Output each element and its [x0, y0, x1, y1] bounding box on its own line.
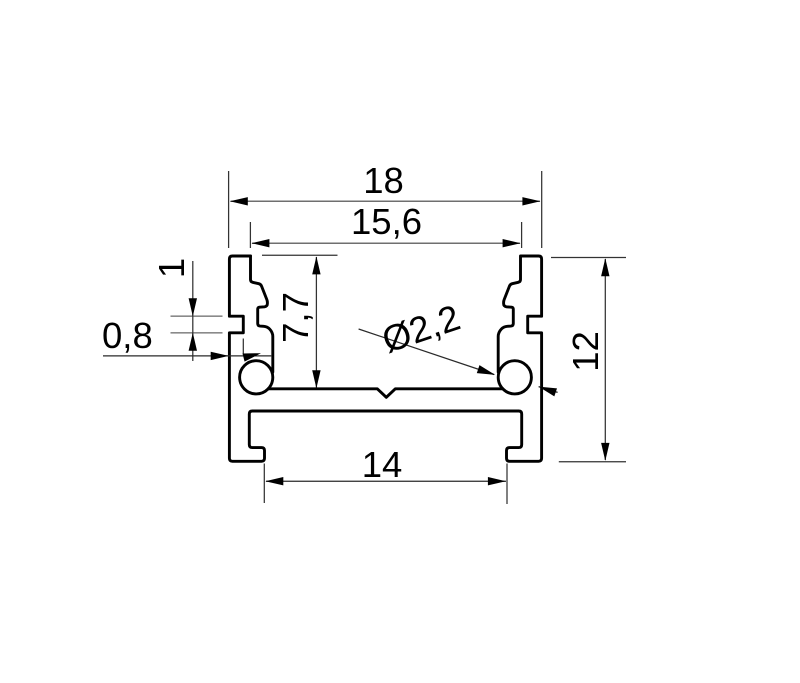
- dim 18 dimension line: [231, 200, 541, 202]
- svg-text:0,8: 0,8: [102, 315, 153, 356]
- dim 1 arrow down: [189, 298, 197, 316]
- dim 0,8 arrow tilted at tooth: [243, 349, 262, 362]
- dim 1 reference line upper (gray): [171, 315, 223, 317]
- dim diameter 2,2 tail line: [539, 387, 558, 393]
- dim 15,6 extension line right: [521, 222, 523, 248]
- dim 15,6 dimension line: [252, 242, 520, 244]
- dim 14 extension line left: [263, 464, 265, 504]
- svg-text:15,6: 15,6: [351, 201, 422, 242]
- dim 18 arrow left: [230, 197, 248, 205]
- right screw boss circle: [498, 361, 531, 394]
- svg-text:18: 18: [363, 160, 404, 201]
- dim 18 arrow right: [522, 197, 540, 205]
- dim 14 extension line right: [506, 464, 508, 505]
- dim diameter 2,2 leader line: [359, 329, 494, 375]
- dim 12 top extension line: [551, 257, 626, 259]
- dim diameter 2,2 arrow at circle right: [537, 383, 557, 397]
- dim 1 arrow up: [189, 333, 197, 351]
- svg-text:1: 1: [151, 258, 192, 278]
- dim 15,6 arrow right: [503, 239, 521, 247]
- cavity floor line with center V notch: [268, 389, 502, 398]
- dim 7,7 top extension line: [262, 254, 338, 256]
- dim 1 dimension line vertical: [192, 261, 194, 361]
- left screw boss circle: [240, 361, 273, 394]
- dim diameter 2,2 arrow at circle left: [477, 365, 497, 379]
- dim 0,8 leader line: [103, 355, 272, 357]
- dim 12 bottom extension line: [559, 461, 626, 463]
- svg-text:12: 12: [565, 331, 606, 372]
- dim 7,7 arrow up: [312, 256, 320, 274]
- svg-text:14: 14: [362, 444, 403, 485]
- dim 15,6 arrow left: [251, 239, 269, 247]
- dim 14 arrow left: [265, 477, 283, 485]
- dim 12 dimension line vertical: [604, 259, 606, 460]
- dim 7,7 arrow down: [312, 370, 320, 388]
- dim 7,7 dimension line vertical: [315, 257, 317, 388]
- svg-text:7,7: 7,7: [275, 292, 316, 343]
- dim 14 arrow right: [488, 477, 506, 485]
- dim 1 reference line lower (gray): [171, 332, 223, 334]
- profile outline: outer boundary, bottom feet, slot, right wall inner face: [229, 256, 541, 461]
- dim 0,8 extension line (notch face): [242, 339, 244, 355]
- dim 0,8 arrow at outer face: [211, 352, 229, 360]
- dim 15,6 extension line left: [249, 222, 251, 248]
- profile left wall inner face with snap tooth: [251, 256, 273, 372]
- dim 18 extension line left: [228, 171, 230, 248]
- dim 14 dimension line: [266, 480, 506, 482]
- dim 12 arrow down: [601, 443, 609, 461]
- dim 12 arrow up: [601, 258, 609, 276]
- dim 18 extension line right: [541, 171, 543, 248]
